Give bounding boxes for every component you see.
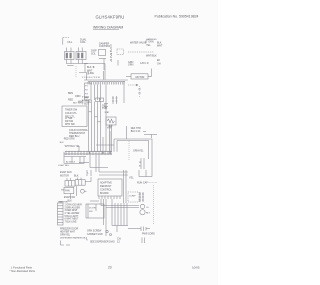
wire bbox=[66, 48, 68, 52]
ladder tick bbox=[98, 121, 101, 123]
title WIRING DIAGRAM bbox=[93, 25, 123, 29]
svg-text:WHT BLU YEL: WHT BLU YEL bbox=[65, 146, 81, 148]
svg-text:ORN: ORN bbox=[128, 64, 134, 67]
wire bbox=[97, 85, 99, 101]
svg-text:GRN/YEL: GRN/YEL bbox=[133, 150, 144, 153]
svg-text:LIGHT BLU: LIGHT BLU bbox=[58, 165, 70, 167]
heater H1 bbox=[106, 117, 116, 125]
svg-text:GRN/YEL: GRN/YEL bbox=[60, 234, 71, 236]
junction dot bbox=[93, 66, 95, 68]
svg-text:7 BLK LINE: 7 BLK LINE bbox=[65, 221, 77, 223]
wire bbox=[139, 176, 152, 178]
wire bbox=[117, 60, 119, 66]
control switch box bbox=[62, 106, 87, 127]
sub-box labels bbox=[58, 161, 76, 167]
vertical label column bbox=[110, 45, 112, 62]
ground marks bbox=[87, 231, 103, 236]
svg-text:4 YEL WATER: 4 YEL WATER bbox=[65, 212, 80, 215]
wire bbox=[86, 170, 88, 176]
wire label bbox=[107, 126, 112, 129]
header model number bbox=[96, 15, 125, 20]
wire bbox=[77, 60, 79, 64]
wire bbox=[145, 170, 147, 177]
svg-text:FAN: FAN bbox=[65, 190, 70, 193]
svg-text:BLK: BLK bbox=[68, 201, 73, 203]
switch S2 bbox=[75, 180, 85, 186]
svg-text:BLK Ω 21: BLK Ω 21 bbox=[131, 131, 142, 133]
wire bbox=[123, 170, 125, 203]
svg-text:* Non-Illustrated Parts: * Non-Illustrated Parts bbox=[10, 269, 36, 273]
wire bbox=[99, 174, 128, 176]
wire bbox=[70, 60, 72, 64]
wire bbox=[151, 135, 153, 139]
svg-text:BLK: BLK bbox=[60, 142, 64, 144]
tick bbox=[143, 131, 146, 133]
svg-text:BLK WHT: BLK WHT bbox=[73, 103, 83, 105]
svg-text:RUN CAP — — —: RUN CAP — — — bbox=[137, 182, 157, 185]
svg-text:TIMER SW: TIMER SW bbox=[65, 108, 78, 111]
legend text rows bbox=[128, 54, 161, 66]
svg-text:WHT: WHT bbox=[157, 45, 163, 48]
solenoid valve V1 bbox=[65, 52, 75, 60]
relay K1 bbox=[131, 74, 148, 79]
svg-text:RLY: RLY bbox=[146, 213, 151, 215]
compressor label bbox=[133, 150, 144, 153]
solenoid valve V2 bbox=[76, 52, 86, 60]
svg-text:FREEZER DOOR: FREEZER DOOR bbox=[60, 228, 79, 230]
junction dot bbox=[89, 152, 91, 154]
terminal board labels bbox=[65, 205, 83, 224]
arrowhead bbox=[136, 84, 139, 86]
wire bbox=[70, 48, 72, 52]
switch rows text bbox=[65, 108, 78, 126]
wire corner double bbox=[114, 139, 152, 170]
ladder tick bbox=[89, 111, 92, 113]
bus label row bbox=[82, 77, 101, 79]
svg-text:BLK: BLK bbox=[74, 174, 79, 177]
wire bbox=[151, 170, 153, 177]
svg-text:DEF HTR: DEF HTR bbox=[131, 128, 141, 130]
wire labels bbox=[139, 162, 142, 168]
svg-text:HEATER WHT: HEATER WHT bbox=[60, 230, 76, 233]
wire mark bbox=[142, 238, 145, 244]
wire labels bbox=[68, 92, 84, 104]
wire bbox=[89, 155, 91, 168]
wire bbox=[123, 81, 125, 103]
wire bbox=[120, 203, 122, 226]
wire bbox=[126, 203, 128, 226]
thermostat label bbox=[99, 43, 111, 49]
svg-text:MOTOR: MOTOR bbox=[60, 174, 69, 177]
svg-text:MTR SW: MTR SW bbox=[65, 123, 75, 126]
svg-text:M: M bbox=[110, 54, 112, 56]
wire bbox=[105, 199, 107, 236]
dash bbox=[66, 244, 70, 246]
wire bbox=[101, 205, 139, 207]
wire bbox=[70, 194, 72, 199]
terminal board TB1 bbox=[58, 203, 64, 225]
svg-text:RED: RED bbox=[68, 98, 73, 101]
heater ladder bbox=[139, 192, 144, 202]
text rows bbox=[60, 228, 79, 236]
plug label bbox=[142, 234, 155, 236]
footer left line2 bbox=[10, 269, 36, 273]
svg-text:CONTROL: CONTROL bbox=[100, 189, 112, 192]
motor label bbox=[58, 189, 75, 203]
wire bbox=[67, 60, 106, 64]
svg-text:5 BLU LIGHT: 5 BLU LIGHT bbox=[65, 216, 79, 218]
bottom text row bbox=[60, 237, 88, 240]
dashed wire bbox=[153, 185, 155, 225]
bottom text bbox=[86, 238, 115, 243]
svg-text:YEL: YEL bbox=[146, 44, 151, 47]
wire bbox=[87, 71, 89, 75]
svg-text:FILL: FILL bbox=[68, 41, 73, 44]
wire bbox=[103, 59, 105, 71]
svg-text:12:: 12: bbox=[117, 241, 121, 244]
svg-text:‡ Functional Parts: ‡ Functional Parts bbox=[11, 265, 33, 269]
svg-text:BRN: BRN bbox=[68, 92, 73, 95]
wire bbox=[103, 199, 105, 225]
dashed wire bbox=[128, 51, 154, 53]
svg-text:CABINET GND: CABINET GND bbox=[87, 233, 103, 236]
timer comb bbox=[99, 196, 120, 199]
fan labels bbox=[60, 171, 79, 178]
wire bbox=[90, 200, 99, 202]
wire labels group bbox=[60, 138, 81, 148]
wire label bbox=[131, 128, 142, 133]
connector labels bbox=[85, 86, 88, 100]
run capacitor C1 bbox=[81, 189, 87, 193]
wire labels bbox=[82, 96, 90, 106]
junction dot bbox=[102, 152, 104, 154]
dotted wire bbox=[75, 66, 77, 78]
wire bbox=[95, 155, 97, 172]
connector block J1 bbox=[85, 83, 92, 100]
svg-text:1 2 3 4 5 6 7 8 9 10: 1 2 3 4 5 6 7 8 9 10 bbox=[82, 77, 101, 79]
terminal strip TS1 bbox=[64, 151, 112, 155]
footer date bbox=[192, 266, 200, 270]
wire corner bbox=[85, 177, 91, 182]
svg-text:GRN SCREW: GRN SCREW bbox=[87, 231, 102, 233]
terminal block bottom bbox=[64, 152, 89, 164]
overload protector OL1 bbox=[140, 204, 144, 208]
svg-text:GH: GH bbox=[157, 63, 161, 66]
wire bbox=[148, 69, 151, 77]
wire bbox=[116, 226, 118, 232]
component cluster bbox=[102, 105, 110, 115]
legend heading bbox=[146, 38, 157, 41]
tick bbox=[104, 103, 108, 105]
legend text rows bbox=[130, 41, 163, 48]
wire corner bbox=[61, 241, 65, 246]
dashed wire with arrow bbox=[128, 84, 136, 86]
wire bbox=[114, 203, 116, 226]
ladder tick bbox=[95, 116, 98, 118]
wire bbox=[116, 141, 118, 152]
connector pair bbox=[109, 125, 113, 152]
wire bbox=[94, 85, 96, 101]
text above control box bbox=[73, 102, 91, 104]
dashed vertical ice maker line bbox=[110, 45, 112, 63]
box labels bbox=[89, 207, 96, 212]
header publication number bbox=[155, 15, 199, 19]
svg-text:SEE DISPENSER DIAG: SEE DISPENSER DIAG bbox=[90, 241, 115, 244]
svg-text:ORN: ORN bbox=[75, 95, 81, 98]
wire bbox=[117, 203, 119, 226]
wire bbox=[77, 48, 79, 52]
wire bbox=[103, 71, 105, 80]
fan relay box bbox=[64, 187, 74, 193]
wire bbox=[99, 171, 128, 173]
node labels bbox=[91, 50, 97, 56]
wire bbox=[62, 38, 64, 45]
wire bbox=[123, 203, 125, 226]
title underline bbox=[93, 29, 119, 31]
wire bbox=[78, 146, 80, 152]
svg-text:COIL: COIL bbox=[80, 41, 86, 44]
switch stubs bbox=[67, 178, 81, 181]
wire bbox=[109, 131, 111, 152]
wire bbox=[102, 137, 104, 152]
wire cluster bbox=[141, 158, 144, 169]
svg-text:COMP: COMP bbox=[129, 196, 136, 198]
compressor motor label bbox=[146, 207, 151, 215]
wire bbox=[98, 155, 100, 172]
relay K1 label bbox=[136, 76, 145, 79]
svg-text:YEL: YEL bbox=[129, 176, 134, 179]
svg-text:ADAPTIVE: ADAPTIVE bbox=[100, 181, 112, 184]
switch S1 bbox=[65, 181, 75, 187]
defrost timer box U1 bbox=[98, 179, 122, 196]
terminal board header bbox=[59, 201, 69, 203]
svg-text:LINE: LINE bbox=[89, 72, 95, 75]
node label bbox=[89, 72, 95, 75]
wire bbox=[112, 225, 128, 227]
svg-text:DOOR: DOOR bbox=[89, 207, 96, 209]
wire bbox=[84, 64, 86, 73]
terminal comb bbox=[88, 82, 125, 85]
wire bbox=[94, 102, 96, 152]
wire bbox=[106, 207, 139, 209]
footer page number bbox=[108, 266, 112, 270]
node label bbox=[88, 172, 90, 174]
wire label bbox=[129, 176, 134, 179]
svg-text:DEFROST: DEFROST bbox=[100, 185, 112, 188]
wire bbox=[100, 199, 102, 206]
svg-text:PWR CORD: PWR CORD bbox=[142, 234, 155, 236]
thermostat TH1 bbox=[99, 50, 107, 59]
text row bbox=[137, 182, 157, 185]
svg-text:WIRING DIAGRAM: WIRING DIAGRAM bbox=[93, 25, 123, 29]
svg-text:2 BRN AUGER: 2 BRN AUGER bbox=[65, 206, 81, 209]
timer text rows bbox=[100, 181, 112, 195]
svg-text:Publication No. 5995419824: Publication No. 5995419824 bbox=[155, 15, 199, 19]
wire bbox=[144, 134, 157, 136]
wire bbox=[81, 48, 83, 52]
wire bbox=[100, 85, 102, 101]
wire bbox=[81, 60, 83, 64]
text below box bbox=[69, 129, 89, 138]
svg-text:EVAP FAN: EVAP FAN bbox=[60, 171, 72, 174]
dashed box ice maker bbox=[117, 49, 124, 55]
svg-text:TMR: TMR bbox=[102, 107, 107, 110]
fan relay label bbox=[65, 190, 70, 193]
svg-text:WHT/BLK: WHT/BLK bbox=[146, 54, 157, 57]
wire bbox=[75, 186, 77, 196]
wire bbox=[90, 167, 108, 169]
dashed box compressor bbox=[128, 192, 139, 202]
wire labels bbox=[87, 66, 93, 72]
wire bbox=[104, 64, 106, 80]
svg-text:1 ORN ICE MKR: 1 ORN ICE MKR bbox=[65, 205, 83, 207]
wire bbox=[90, 170, 92, 176]
svg-text:6 WHT NEUT: 6 WHT NEUT bbox=[65, 219, 80, 221]
wire bbox=[91, 100, 93, 152]
footer left line1 bbox=[11, 265, 33, 269]
wire bbox=[95, 204, 97, 211]
wire corner bbox=[79, 73, 87, 81]
svg-text:BOARD: BOARD bbox=[100, 192, 109, 195]
power cord plug bbox=[141, 227, 150, 232]
tick bbox=[138, 88, 141, 90]
wire nut bbox=[110, 234, 112, 236]
tick bbox=[104, 106, 108, 108]
box lower left bbox=[86, 204, 104, 218]
connector pair bbox=[112, 96, 118, 104]
svg-text:RED ORN: RED ORN bbox=[64, 138, 75, 140]
dashed wire bbox=[128, 141, 130, 160]
svg-text:EVAP FAN: EVAP FAN bbox=[64, 196, 75, 199]
svg-text:GLHS4KF9RU: GLHS4KF9RU bbox=[96, 15, 125, 20]
svg-text:A1 B2 C3: A1 B2 C3 bbox=[66, 161, 76, 164]
svg-text:MOTOR: MOTOR bbox=[136, 76, 145, 79]
wire bbox=[111, 199, 113, 226]
relay R2 bbox=[140, 210, 145, 215]
svg-text:SOL: SOL bbox=[91, 53, 96, 56]
wire bbox=[125, 170, 127, 203]
compressor text bbox=[129, 196, 136, 198]
wire bbox=[84, 63, 88, 65]
wire bbox=[100, 102, 102, 152]
wire bbox=[126, 75, 131, 77]
svg-text:3 RED DISP: 3 RED DISP bbox=[65, 210, 78, 212]
tick bbox=[138, 92, 141, 94]
wire bbox=[97, 102, 99, 152]
wire corner bbox=[117, 141, 149, 160]
wire nut bbox=[106, 230, 108, 232]
wire bbox=[113, 139, 115, 152]
svg-text:STAT: STAT bbox=[105, 111, 111, 114]
svg-text:DISPENSER HARNESS BLK: DISPENSER HARNESS BLK bbox=[60, 237, 88, 240]
dotted wire bbox=[63, 37, 69, 39]
thermostat dashed line bbox=[139, 86, 141, 97]
svg-text:23: 23 bbox=[108, 266, 112, 270]
wire bbox=[138, 170, 140, 177]
node L1 label bbox=[68, 39, 88, 45]
svg-text:A B C D: A B C D bbox=[140, 62, 149, 65]
connector blob bbox=[117, 237, 121, 243]
svg-text:COLD CTL: COLD CTL bbox=[65, 112, 77, 115]
wire bbox=[96, 144, 114, 146]
junction dot bbox=[109, 152, 111, 154]
wire bbox=[67, 64, 73, 66]
wire bbox=[128, 228, 141, 230]
wire bbox=[126, 126, 128, 139]
svg-text:10/05: 10/05 bbox=[192, 266, 200, 270]
svg-text:EF: EF bbox=[157, 59, 161, 62]
resistor R1 bbox=[96, 98, 104, 102]
main bus wire bbox=[84, 79, 128, 81]
wire bbox=[105, 85, 107, 152]
wire bbox=[88, 100, 90, 152]
